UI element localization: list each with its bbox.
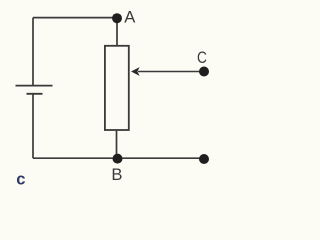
wiper arrowhead bbox=[131, 67, 140, 76]
battery negative plate (short) bbox=[27, 93, 43, 95]
node B junction dot bbox=[113, 154, 123, 164]
node C terminal dot bbox=[199, 67, 209, 77]
bottom-right terminal dot bbox=[199, 154, 209, 164]
potentiometer body (resistance element) bbox=[105, 46, 129, 130]
svg-text:c: c bbox=[16, 171, 25, 189]
svg-text:B: B bbox=[111, 165, 122, 184]
svg-text:A: A bbox=[124, 7, 136, 26]
node A junction dot bbox=[112, 13, 122, 23]
wire top (battery + to node A) bbox=[33, 17, 117, 19]
svg-text:C: C bbox=[197, 48, 207, 67]
wire left lower (battery - plate down to bottom wire) bbox=[32, 94, 34, 158]
wiper wire (node C to arrowhead) bbox=[138, 71, 204, 73]
wire node A to potentiometer top bbox=[116, 18, 118, 46]
wire bottom (left corner to right end node) bbox=[33, 157, 204, 159]
wire left upper (top corner down to battery + plate) bbox=[32, 18, 34, 86]
battery positive plate (long) bbox=[16, 85, 53, 87]
wire potentiometer bottom to node B bbox=[116, 130, 118, 158]
